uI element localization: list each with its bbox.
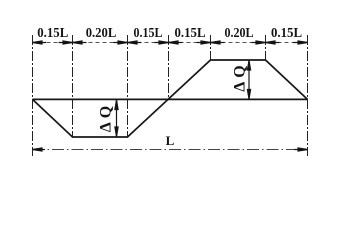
segment 0.15L shaft/arrows (127.5-168.5) [128,42,142,44]
top dimension chain line y=42.5 [33,42,308,44]
extension line x=72.5 [72,35,74,137]
segment 0.20L shaft/arrows (210.5-265.5) [211,42,225,44]
segment 0.15L shaft/arrows (168.5-210.5) [169,42,183,44]
extension line x=307 (right end) [307,35,309,156]
extension line x=210.5 [210,35,212,60]
bottom L dimension line [33,149,308,151]
segment 0.15L shaft/arrows (265.5-307) [266,42,280,44]
svg-text:0.15L: 0.15L [271,26,302,41]
dimension shafts with arrowheads [33,41,308,44]
svg-text:L: L [166,133,175,148]
baseline (reference axis) [33,98,308,100]
extension line x=32 (left end) [32,35,34,156]
extension line x=265.5 [265,35,267,60]
svg-text:0.20L: 0.20L [225,26,254,41]
svg-text:0.15L: 0.15L [175,26,206,41]
upper dQ dimension arrow [247,61,250,100]
segment 0.15L shaft/arrows (32-72.5) [33,42,47,44]
lower dQ dimension arrow [115,100,118,137]
segment 0.20L shaft/arrows (72.5-127.5) [73,42,87,44]
svg-text:0.20L: 0.20L [86,26,117,41]
svg-text:ΔQ: ΔQ [98,102,115,132]
svg-text:0.15L: 0.15L [37,26,68,41]
svg-text:ΔQ: ΔQ [232,61,249,91]
extension line x=127.5 [127,35,129,137]
zigzag tolerance profile [33,60,308,137]
extension line x=168.5 (midpoint) [168,35,170,100]
svg-text:0.15L: 0.15L [134,26,163,41]
